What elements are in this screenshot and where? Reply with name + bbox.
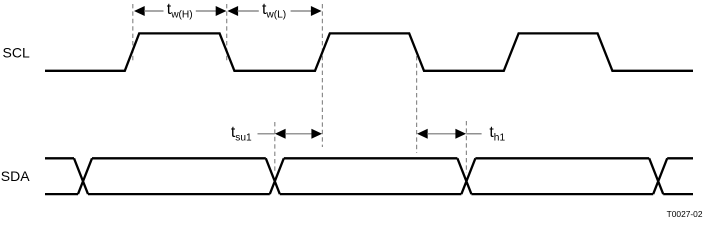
wire SDA bottom rail xyxy=(45,193,693,195)
wire SCL waveform xyxy=(45,33,693,70)
svg-text:SCL: SCL xyxy=(3,45,30,61)
node dashed reference line at SCL falling edge 2 xyxy=(416,56,418,153)
node dashed reference line at SCL rising edge 2 xyxy=(321,4,323,147)
svg-text:w(H): w(H) xyxy=(170,10,193,21)
svg-text:su1: su1 xyxy=(235,132,252,143)
junction SDA crossover 4 xyxy=(649,158,667,194)
junction SDA crossover 1 xyxy=(74,158,92,194)
dimension t_w(L) arrow left xyxy=(227,6,258,16)
junction SDA crossover 2 xyxy=(266,158,284,194)
dimension t_h1 arrow right xyxy=(455,129,466,139)
dimension t_su1 arrow line xyxy=(285,133,312,135)
node dashed reference line at SDA transition 3 xyxy=(465,121,467,173)
dimension t_w(H) arrow right xyxy=(196,6,227,16)
svg-text:T0027-02: T0027-02 xyxy=(667,209,703,218)
dimension t_su1 leader line xyxy=(258,133,275,135)
dimension t_w(L) arrow right xyxy=(291,6,322,16)
dimension t_w(H) arrow left xyxy=(134,6,164,16)
svg-text:w(L): w(L) xyxy=(265,10,286,21)
dimension t_h1 arrow left xyxy=(417,129,428,139)
node dashed reference line at SCL falling edge 1 xyxy=(226,4,228,61)
dimension t_su1 arrow left xyxy=(275,129,286,139)
svg-text:SDA: SDA xyxy=(1,168,30,184)
node dashed reference line at SDA transition 2 xyxy=(274,122,276,173)
dimension t_su1 arrow right xyxy=(311,129,322,139)
wire SDA top rail xyxy=(45,157,693,159)
node dashed reference line at SCL rising edge 1 xyxy=(132,4,134,61)
junction SDA crossover 3 xyxy=(457,158,475,194)
dimension t_h1 leader line xyxy=(466,133,481,135)
dimension t_h1 arrow line xyxy=(427,133,456,135)
svg-text:h1: h1 xyxy=(494,132,506,143)
